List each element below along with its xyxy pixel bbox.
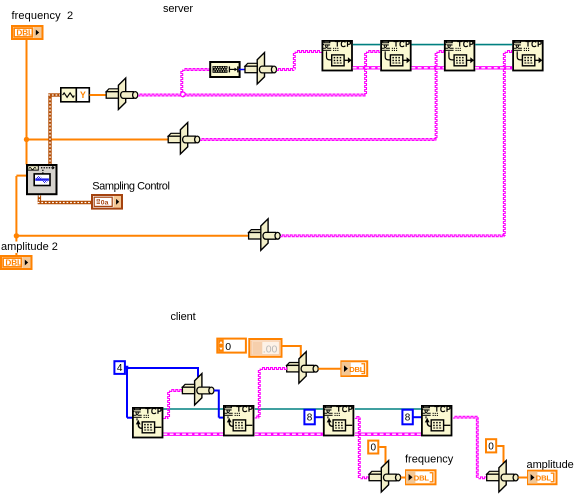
Simulate Signal express VI — [27, 165, 57, 194]
label frequency — [405, 454, 454, 466]
svg-text:amplitude 2: amplitude 2 — [1, 241, 58, 253]
numeric constant 8 a — [304, 410, 314, 425]
TCP Read 2 — [224, 406, 254, 436]
String Length function — [210, 62, 239, 77]
svg-text:8: 8 — [307, 413, 313, 424]
svg-text:DBL: DBL — [536, 473, 552, 482]
wire 8b to TCP read 4 — [414, 416, 422, 418]
wire 0b to cast H type — [497, 445, 503, 464]
numeric indicator amplitude (DBL) — [528, 471, 557, 485]
numeric indicator frequency (DBL) — [406, 470, 436, 484]
wire dynamic Simulate to Y-component — [48, 95, 60, 164]
wire dynamic Simulate to Sampling Control — [38, 196, 91, 203]
label frequency 2 — [12, 10, 74, 22]
svg-text:.00: .00 — [263, 344, 278, 356]
wire 8a to TCP read 3 — [316, 416, 323, 418]
type cast G (string to frequency) — [369, 461, 401, 493]
svg-text:DBL: DBL — [16, 28, 33, 37]
wire DBL cast E to indicator — [318, 368, 340, 370]
numeric control amplitude 2 (DBL) — [1, 256, 32, 269]
junction string — [181, 92, 186, 97]
junction frequency — [24, 137, 29, 142]
numeric constant 8 b — [402, 410, 412, 425]
svg-text:DBL: DBL — [5, 258, 22, 267]
svg-text:frequency: frequency — [405, 454, 454, 466]
wire int String Length to cast C — [239, 69, 245, 71]
wire DBL cast H to amplitude indicator — [518, 477, 527, 479]
junction amplitude — [14, 233, 19, 238]
svg-text:DBL: DBL — [414, 474, 430, 483]
wire int cast F to TCP read 2 — [214, 390, 223, 418]
wire string cast A to TCP write 2 — [183, 51, 380, 96]
svg-text:8: 8 — [405, 413, 411, 424]
type cast E (string to DBL) — [287, 352, 319, 384]
TCP Read 1 — [133, 408, 163, 438]
wire Y to cast A — [90, 94, 107, 96]
numeric constant 1.00 (dimmed) — [249, 339, 281, 357]
wire string branch up to String Length — [181, 69, 210, 93]
svg-text:0: 0 — [370, 443, 376, 454]
svg-text:4: 4 — [117, 363, 123, 374]
type cast D (amplitude to string) — [249, 219, 281, 251]
TCP Write 3 — [445, 41, 475, 71]
wire amplitude vertical — [15, 176, 17, 256]
wire string cast D to TCP write 4 — [280, 51, 512, 237]
wire 4 to cast F type — [128, 367, 199, 377]
wire string cast A output — [138, 94, 183, 96]
wire string TCP read 3 to cast G — [355, 417, 369, 479]
label server — [163, 3, 193, 15]
svg-text:0a: 0a — [101, 199, 109, 206]
svg-text:0: 0 — [488, 441, 494, 452]
Get Waveform Components Y — [61, 88, 90, 102]
type cast F (string to int) — [182, 374, 214, 406]
svg-text:client: client — [171, 311, 196, 323]
svg-text:DBL: DBL — [349, 365, 365, 374]
wire 0a to cast G type — [379, 446, 385, 464]
numeric constant 4 — [114, 361, 128, 374]
TCP Write 4 — [513, 41, 543, 71]
numeric indicator DBL (client) — [341, 361, 367, 376]
numeric control frequency 2 (DBL) — [12, 26, 43, 39]
numeric constant 0 a — [368, 441, 378, 454]
wire string cast C to TCP write 1 — [277, 51, 322, 71]
Sampling Control (dynamic data control) — [92, 195, 122, 209]
svg-text:server: server — [163, 3, 193, 15]
svg-text:0: 0 — [225, 341, 231, 353]
wire amplitude horizontal to cast D — [16, 235, 248, 237]
wire TCP connection client — [164, 408, 422, 410]
type cast C (length to string) — [245, 53, 277, 85]
type cast B (frequency to string) — [168, 123, 200, 155]
label client — [171, 311, 196, 323]
numeric constant 0 b — [486, 439, 496, 452]
wire type input cast E — [282, 345, 301, 357]
wire string TCP read 2 to cast E — [255, 368, 287, 418]
wire TCP connection server — [353, 44, 512, 46]
svg-text:Sampling Control: Sampling Control — [92, 181, 169, 193]
wire error cluster client — [164, 433, 422, 436]
type cast H (string to amplitude) — [487, 461, 519, 493]
svg-text:amplitude: amplitude — [527, 459, 574, 471]
wire string TCP read 1 to cast F — [164, 390, 183, 419]
wire string TCP read 4 to cast H — [453, 416, 487, 478]
TCP Write 2 — [381, 41, 411, 71]
label amplitude — [527, 459, 574, 471]
type cast A (waveform data to string) — [106, 78, 138, 110]
wire frequency horizontal to cast B — [27, 139, 169, 141]
wire string cast B to TCP write 3 — [200, 51, 444, 141]
label amplitude 2 — [0, 241, 58, 253]
TCP Read 3 — [324, 406, 354, 436]
numeric control 0 with spinner — [217, 339, 246, 353]
wire 4 to TCP read 1 — [127, 367, 132, 418]
TCP Write 1 — [322, 41, 352, 71]
label Sampling Control — [92, 181, 169, 193]
TCP Read 4 — [422, 406, 452, 436]
svg-text:frequency 2: frequency 2 — [12, 10, 74, 22]
wire amplitude to Simulate Signal — [16, 175, 26, 177]
wire DBL cast G to frequency indicator — [401, 477, 405, 479]
wire frequency vertical — [26, 40, 28, 165]
svg-text:Y: Y — [80, 90, 86, 100]
wire error cluster server — [353, 66, 512, 69]
